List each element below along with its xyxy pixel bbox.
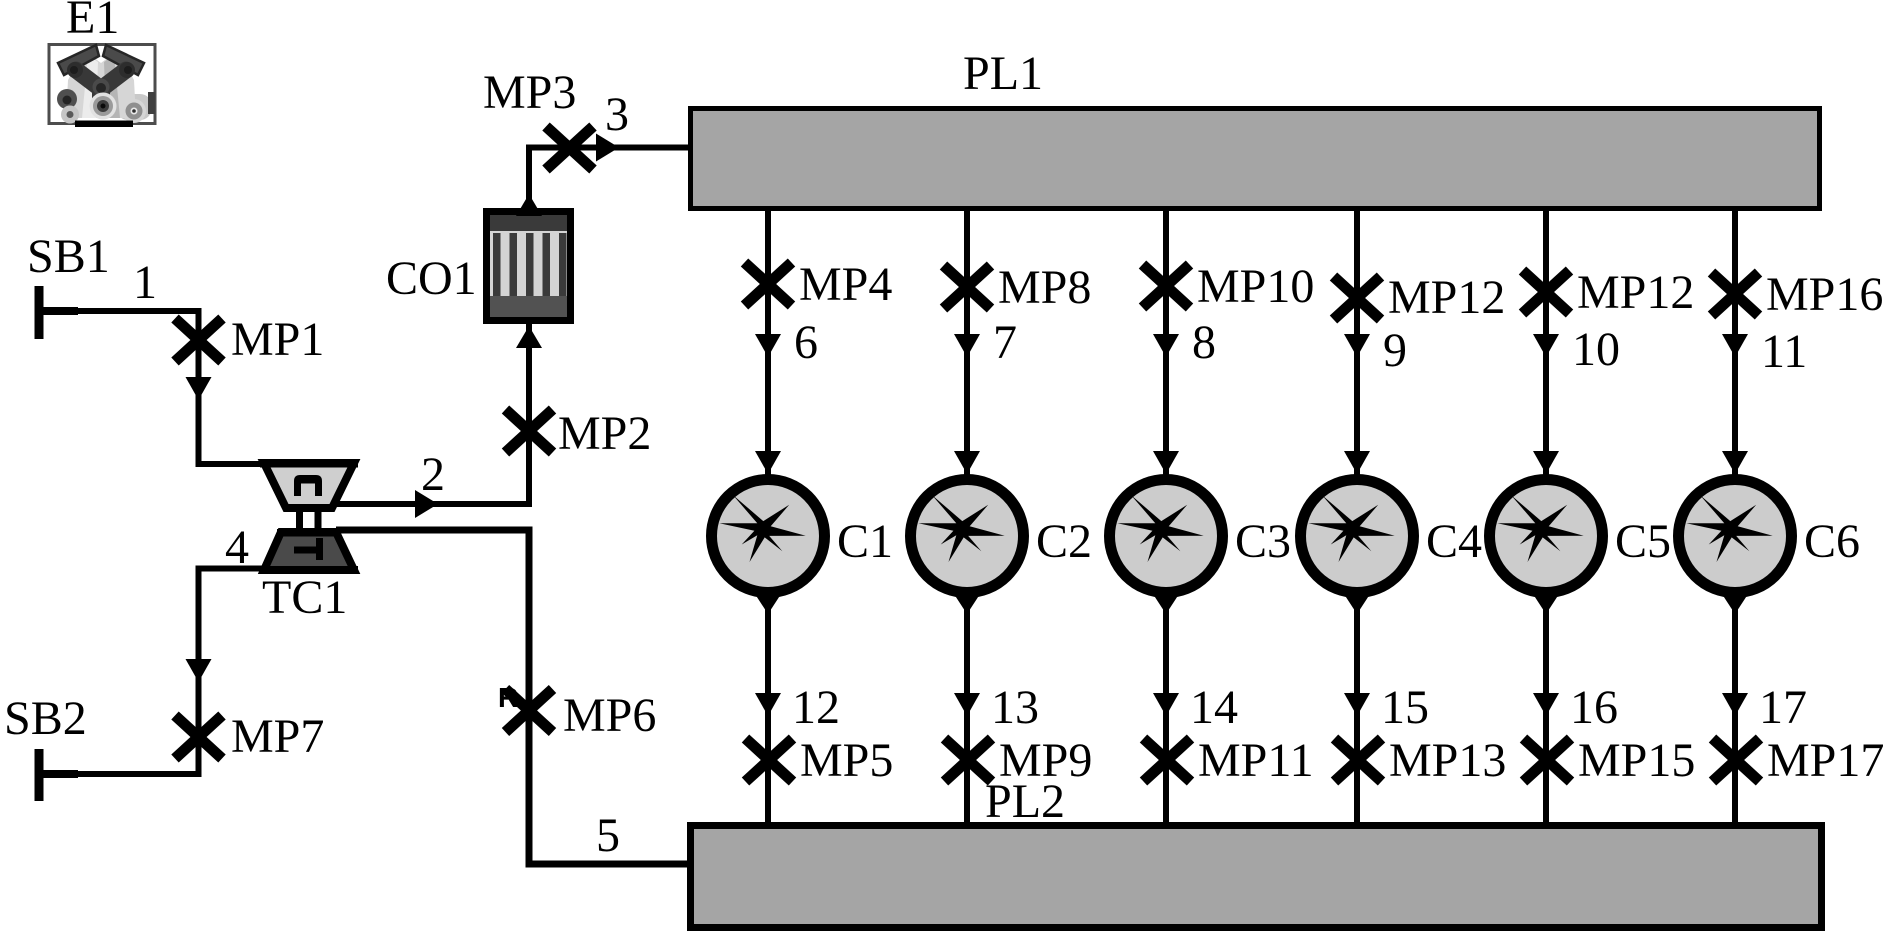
svg-text:PL1: PL1	[963, 47, 1043, 100]
measuring point MP7	[175, 716, 222, 759]
cylinder C6 outlet nub	[1720, 591, 1750, 614]
cylinder C1	[712, 480, 825, 593]
wire intake runner 8	[1163, 211, 1169, 479]
measuring point MP13	[1335, 739, 1382, 782]
flow arrow runner 9	[1344, 334, 1370, 357]
flow arrow runner 14	[1153, 693, 1179, 716]
cylinder C2 burst symbol	[918, 495, 1004, 562]
svg-text:14: 14	[1190, 681, 1238, 734]
flow arrow into C3	[1153, 451, 1179, 474]
flow arrow runner 6	[755, 334, 781, 357]
svg-text:1: 1	[133, 256, 157, 309]
cylinder C3	[1110, 480, 1223, 593]
svg-text:CO1: CO1	[386, 252, 477, 305]
flow arrow runner 15	[1344, 693, 1370, 716]
flow arrow into C6	[1722, 451, 1748, 474]
wire pipe 4 from turbine to SB2	[44, 569, 264, 775]
wire exhaust runner 17	[1732, 592, 1738, 823]
wire pipe 2 from compressor to CO1	[331, 320, 529, 504]
svg-text:MP15: MP15	[1578, 734, 1695, 787]
svg-text:SB1: SB1	[27, 230, 110, 283]
svg-text:MP9: MP9	[999, 734, 1092, 787]
flow arrow into C1	[755, 451, 781, 474]
wire intake runner 10	[1543, 211, 1549, 479]
flow arrow to SB2	[186, 659, 212, 682]
cylinder C1 outlet nub	[753, 591, 783, 614]
measuring point MP15	[1524, 739, 1571, 782]
cylinder C5 burst symbol	[1497, 495, 1583, 562]
flow arrow into compressor	[186, 377, 212, 400]
turbocharger TC1 compressor	[260, 460, 358, 509]
plenum PL2	[691, 826, 1822, 928]
svg-text:5: 5	[596, 809, 620, 862]
svg-text:MP12: MP12	[1388, 271, 1505, 324]
svg-text:MP11: MP11	[1198, 734, 1314, 787]
svg-text:MP7: MP7	[231, 710, 324, 763]
system boundary SB2 terminal	[39, 749, 78, 801]
wire pipe 3 from CO1 to PL1	[529, 148, 688, 209]
svg-text:16: 16	[1570, 681, 1618, 734]
svg-text:C1: C1	[837, 515, 893, 568]
flow arrow into CO1	[516, 326, 542, 348]
cylinder C3 outlet nub	[1151, 591, 1181, 614]
flow arrow pipe 2	[415, 490, 438, 518]
charge air cooler CO1	[483, 208, 574, 324]
system boundary SB1 terminal	[39, 286, 78, 339]
svg-text:MP3: MP3	[483, 66, 576, 119]
svg-text:MP13: MP13	[1389, 734, 1506, 787]
svg-text:11: 11	[1761, 325, 1807, 378]
svg-text:7: 7	[993, 316, 1017, 369]
cylinder C2 outlet nub	[952, 591, 982, 614]
wire exhaust runner 12	[765, 592, 771, 823]
svg-text:MP10: MP10	[1197, 260, 1314, 313]
svg-text:MP4: MP4	[799, 258, 892, 311]
measuring point MP3	[546, 127, 593, 170]
measuring point MP4	[745, 263, 792, 306]
flow arrow runner 13	[954, 693, 980, 716]
svg-text:MP2: MP2	[558, 407, 651, 460]
measuring point MP2	[506, 410, 553, 453]
cylinder C2	[911, 480, 1024, 593]
svg-text:13: 13	[991, 681, 1039, 734]
flow arrow runner 10	[1533, 334, 1559, 357]
cylinder C4	[1301, 480, 1414, 593]
svg-text:MP12: MP12	[1577, 266, 1694, 319]
measuring point MP6	[506, 689, 553, 732]
cylinder C1 burst symbol	[719, 495, 805, 562]
svg-text:C2: C2	[1036, 515, 1092, 568]
svg-text:MP1: MP1	[231, 313, 324, 366]
wire intake runner 11	[1732, 211, 1738, 479]
flow arrow out of CO1	[516, 194, 542, 216]
flow arrow pipe 3	[596, 134, 619, 162]
svg-text:2: 2	[421, 448, 445, 501]
svg-text:9: 9	[1383, 324, 1407, 377]
wire pipe 1 from SB1 to TC1 compressor	[74, 311, 264, 464]
measuring point MP11	[1144, 739, 1191, 782]
wire exhaust runner 15	[1354, 592, 1360, 823]
turbocharger TC1 turbine	[260, 529, 358, 574]
measuring point MP8	[944, 266, 991, 309]
svg-text:SB2: SB2	[4, 692, 87, 745]
plenum PL1	[691, 109, 1820, 209]
svg-text:MP8: MP8	[998, 261, 1091, 314]
svg-text:C6: C6	[1804, 515, 1860, 568]
cylinder C3 burst symbol	[1117, 495, 1203, 562]
flow arrow into C2	[954, 451, 980, 474]
flow arrow runner 16	[1533, 693, 1559, 716]
wire exhaust runner 16	[1543, 592, 1549, 823]
cylinder C4 outlet nub	[1342, 591, 1372, 614]
flow arrow runner 8	[1153, 334, 1179, 357]
wire intake runner 7	[964, 211, 970, 479]
measuring point MP9	[945, 739, 992, 782]
svg-text:MP17: MP17	[1767, 734, 1884, 787]
wire exhaust runner 13	[964, 592, 970, 823]
measuring point MP12	[1523, 271, 1570, 314]
svg-text:8: 8	[1192, 316, 1216, 369]
measuring point MP16	[1712, 273, 1759, 316]
measuring point MP17	[1713, 739, 1760, 782]
svg-text:17: 17	[1759, 681, 1807, 734]
svg-text:MP5: MP5	[800, 734, 893, 787]
svg-text:C4: C4	[1426, 515, 1482, 568]
cylinder C5	[1490, 480, 1603, 593]
cylinder C6	[1679, 480, 1792, 593]
measuring point MP12	[1334, 277, 1381, 320]
measuring point MP1	[175, 319, 222, 362]
svg-text:MP16: MP16	[1766, 268, 1883, 321]
svg-text:6: 6	[794, 316, 818, 369]
svg-text:TC1: TC1	[262, 571, 347, 624]
wire intake runner 9	[1354, 211, 1360, 479]
flow arrow into C5	[1533, 451, 1559, 474]
cylinder C6 burst symbol	[1686, 495, 1772, 562]
turbocharger TC1 shaft	[296, 505, 322, 533]
svg-text:C3: C3	[1235, 515, 1291, 568]
cylinder C5 outlet nub	[1531, 591, 1561, 614]
flow arrow runner 7	[954, 334, 980, 357]
svg-text:3: 3	[605, 88, 629, 141]
svg-text:12: 12	[792, 681, 840, 734]
cylinder C4 burst symbol	[1308, 495, 1394, 562]
svg-text:C5: C5	[1615, 515, 1671, 568]
flow arrow into C4	[1344, 451, 1370, 474]
svg-text:15: 15	[1381, 681, 1429, 734]
flow arrow runner 11	[1722, 334, 1748, 357]
engine E1 icon	[49, 45, 155, 128]
measuring point MP10	[1143, 265, 1190, 308]
flow arrow runner 17	[1722, 693, 1748, 716]
svg-text:MP6: MP6	[563, 689, 656, 742]
svg-text:E1: E1	[66, 0, 119, 44]
wire pipe 5 from turbine inlet manifold	[336, 530, 687, 864]
flow arrow runner 12	[755, 693, 781, 716]
wire intake runner 6	[765, 211, 771, 479]
wire exhaust runner 14	[1163, 592, 1169, 823]
measuring point MP5	[746, 739, 793, 782]
svg-text:10: 10	[1572, 323, 1620, 376]
